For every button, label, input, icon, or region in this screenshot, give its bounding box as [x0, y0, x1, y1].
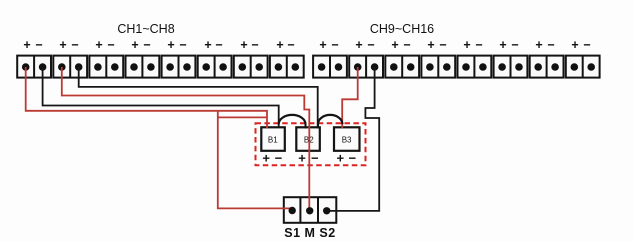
svg-text:B3: B3	[342, 136, 352, 145]
terminal dots CH9~CH16	[318, 63, 595, 71]
svg-text:S1 M S2: S1 M S2	[284, 226, 335, 240]
box B2	[296, 127, 320, 151]
svg-text:−: −	[349, 150, 357, 165]
svg-text:+: +	[355, 38, 362, 52]
terminal block S1 M S2	[284, 197, 337, 223]
svg-text:−: −	[331, 38, 338, 52]
svg-text:−: −	[367, 38, 374, 52]
svg-text:−: −	[511, 38, 518, 52]
S1 dot	[289, 207, 296, 214]
jumper arc stub to B2 top right	[317, 124, 319, 129]
svg-text:−: −	[107, 38, 114, 52]
terminal block pairs CH9~CH16	[313, 56, 599, 78]
wire red loop branch	[218, 116, 267, 118]
svg-text:−: −	[583, 38, 590, 52]
svg-text:−: −	[547, 38, 554, 52]
svg-text:−: −	[179, 38, 186, 52]
svg-text:+: +	[319, 38, 326, 52]
B1 polarity labels	[262, 150, 356, 165]
terminal strip CH9~CH16 polarity labels	[319, 38, 590, 52]
M dot	[306, 207, 313, 214]
dashed junction box outline	[256, 123, 366, 165]
svg-text:+: +	[391, 38, 398, 52]
jumper arc stub to B2 top	[305, 124, 307, 129]
wire CH10- black to S2	[327, 67, 380, 211]
S2 dot	[323, 207, 330, 214]
svg-text:−: −	[215, 38, 222, 52]
svg-text:+: +	[262, 150, 270, 165]
svg-text:−: −	[71, 38, 78, 52]
svg-text:+: +	[298, 150, 306, 165]
wire CH1- black to B1	[43, 67, 279, 128]
terminal dots CH1~CH8	[22, 63, 299, 71]
svg-text:−: −	[439, 38, 446, 52]
svg-text:+: +	[463, 38, 470, 52]
wire red branch down to S1	[218, 111, 292, 209]
svg-text:+: +	[499, 38, 506, 52]
svg-text:+: +	[95, 38, 102, 52]
svg-text:−: −	[251, 38, 258, 52]
svg-text:+: +	[427, 38, 434, 52]
svg-text:−: −	[403, 38, 410, 52]
svg-text:−: −	[475, 38, 482, 52]
svg-text:CH1~CH8: CH1~CH8	[117, 22, 174, 36]
wire CH2- black to B2 right	[79, 67, 318, 128]
svg-text:+: +	[167, 38, 174, 52]
svg-text:+: +	[276, 38, 283, 52]
svg-text:+: +	[240, 38, 247, 52]
svg-text:+: +	[131, 38, 138, 52]
svg-text:−: −	[275, 150, 283, 165]
svg-text:+: +	[23, 38, 30, 52]
svg-text:−: −	[143, 38, 150, 52]
svg-text:CH9~CH16: CH9~CH16	[370, 22, 434, 36]
box B1	[261, 127, 285, 151]
svg-text:+: +	[337, 150, 345, 165]
jumper arc B2-B3	[318, 115, 342, 124]
jumper arc B1-B2	[279, 115, 306, 124]
svg-text:B1: B1	[268, 136, 278, 145]
terminal block pairs CH1~CH8	[17, 56, 303, 78]
svg-text:−: −	[287, 38, 294, 52]
wire CH2+ red to B2/M	[62, 67, 309, 211]
terminal strip CH1~CH8 polarity labels	[23, 38, 294, 52]
svg-text:−: −	[35, 38, 42, 52]
box B3	[334, 127, 360, 151]
svg-text:+: +	[571, 38, 578, 52]
wire CH10+ red to B3	[342, 67, 358, 128]
wire CH1+ red to junction/B1	[26, 67, 267, 128]
svg-text:−: −	[311, 150, 319, 165]
svg-text:+: +	[59, 38, 66, 52]
svg-text:+: +	[535, 38, 542, 52]
svg-text:+: +	[204, 38, 211, 52]
